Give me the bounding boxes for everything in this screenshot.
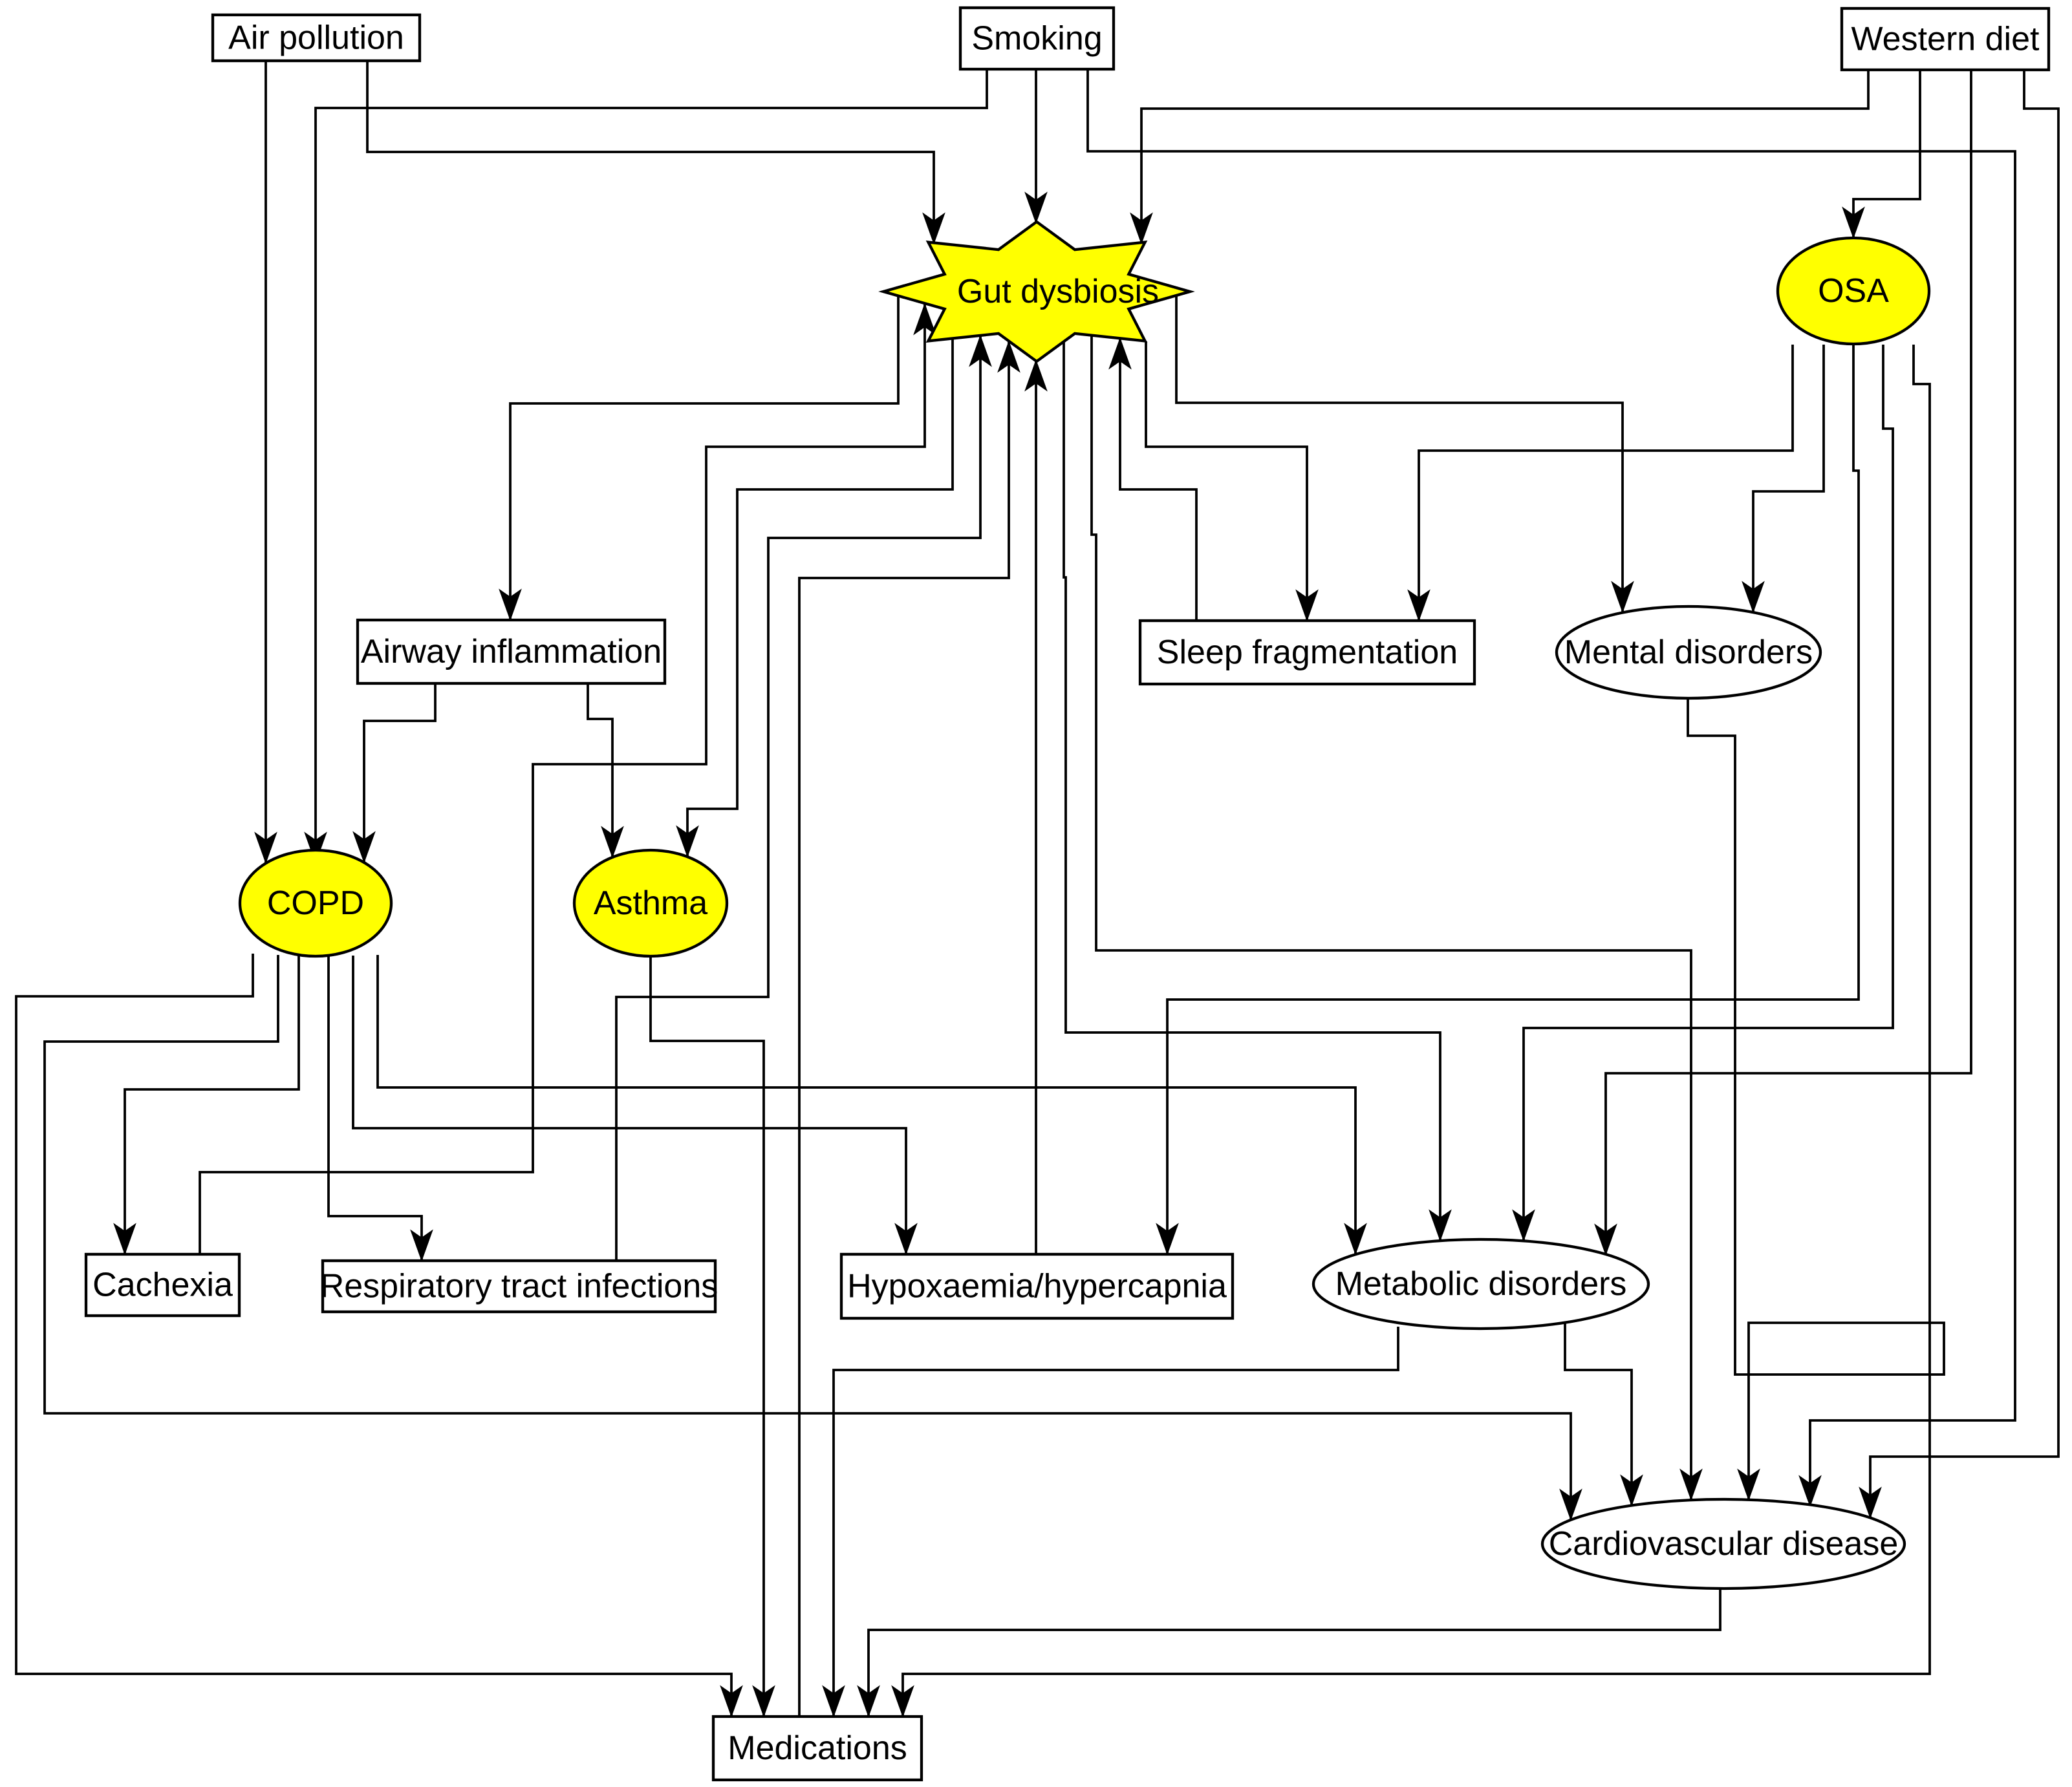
edge Cardiovascular disease to Medications [869,1589,1720,1717]
node Mental disorders (ellipse) [1557,606,1820,698]
edge Gut dysbiosis to Sleep fragmentation [1146,341,1307,621]
edge Air pollution to Gut dysbiosis [367,61,934,244]
svg-text:Airway inflammation: Airway inflammation [361,633,662,670]
node Medications (box) [713,1717,922,1780]
edge Respiratory tract infections to Gut dysbiosis [616,336,980,1261]
edge Sleep fragmentation to Gut dysbiosis [1120,338,1196,621]
node Gut dysbiosis (starburst) [883,222,1190,361]
svg-text:Air pollution: Air pollution [228,19,404,57]
node Western diet (box) [1842,8,2049,70]
edge COPD to Respiratory tract infections [329,956,422,1261]
edge Gut dysbiosis to Metabolic disorders [1064,341,1440,1241]
edge COPD to Hypoxaemia/hypercapnia [353,956,906,1254]
edge Western diet to Gut dysbiosis [1141,70,1868,244]
svg-text:Mental disorders: Mental disorders [1564,634,1813,671]
edge Metabolic disorders to Cardiovascular disease [1565,1323,1632,1506]
edge COPD to Cardiovascular disease [45,955,1571,1520]
node Respiratory tract infections (box) [320,1261,718,1312]
edge COPD to Metabolic disorders [378,955,1355,1254]
svg-text:Western diet: Western diet [1851,21,2040,58]
edge OSA to Medications [903,345,1930,1717]
edge Airway inflammation to Asthma [588,683,612,857]
node OSA (ellipse) [1778,238,1929,344]
edge OSA to Hypoxaemia/hypercapnia [1167,345,1859,1254]
svg-text:Metabolic disorders: Metabolic disorders [1335,1265,1627,1303]
svg-text:Cachexia: Cachexia [92,1267,233,1304]
edge Western diet to Metabolic disorders [1606,70,1971,1255]
node Cachexia (box) [86,1254,239,1316]
edge Mental disorders to Cardiovascular disease [1688,698,1944,1500]
svg-text:Asthma: Asthma [594,884,707,922]
edge Air pollution to COPD [264,61,267,863]
edge Smoking to Cardiovascular disease [1088,69,2015,1506]
svg-text:Cardiovascular disease: Cardiovascular disease [1549,1525,1899,1563]
svg-text:OSA: OSA [1818,272,1889,310]
edge OSA to Sleep fragmentation [1419,345,1793,621]
edge Smoking to Gut dysbiosis [1035,69,1037,223]
svg-text:Smoking: Smoking [971,20,1102,58]
node Smoking (box) [960,8,1114,69]
svg-text:Medications: Medications [728,1729,907,1767]
node Air pollution (box) [213,15,420,61]
edge Airway inflammation to COPD [364,683,435,862]
edge Western diet to Cardiovascular disease [1870,70,2058,1518]
node Airway inflammation (box) [358,620,665,683]
svg-text:Gut dysbiosis: Gut dysbiosis [957,273,1159,310]
edge COPD to Medications [16,954,731,1717]
edge Medications to Gut dysbiosis [799,341,1009,1717]
svg-text:Respiratory tract infections: Respiratory tract infections [320,1268,718,1305]
svg-text:COPD: COPD [267,884,364,922]
node Metabolic disorders (ellipse) [1313,1239,1648,1329]
svg-text:Sleep fragmentation: Sleep fragmentation [1157,634,1458,671]
edge Hypoxaemia/hypercapnia to Gut dysbiosis [1035,360,1037,1254]
edge OSA to Metabolic disorders [1524,345,1893,1241]
edge Metabolic disorders to Medications [834,1327,1398,1717]
node Hypoxaemia/hypercapnia (box) [841,1254,1233,1318]
edge Western diet to OSA [1853,70,1920,238]
svg-text:Hypoxaemia/hypercapnia: Hypoxaemia/hypercapnia [847,1268,1227,1305]
node Asthma (ellipse) [574,850,727,956]
edge OSA to Mental disorders [1753,345,1824,612]
edge Cachexia to Gut dysbiosis [200,304,925,1254]
edge Gut dysbiosis to Cardiovascular disease [1092,336,1691,1500]
edge Gut dysbiosis to Airway inflammation [510,296,898,620]
node Cardiovascular disease (ellipse) [1542,1499,1905,1589]
edge Gut dysbiosis to Asthma [687,338,953,857]
edge Smoking to COPD [316,69,987,863]
node COPD (ellipse) [240,850,391,956]
edge Gut dysbiosis to Mental disorders [1176,295,1623,612]
edge Asthma to Medications [651,956,764,1717]
node Sleep fragmentation (box) [1140,621,1474,684]
edge COPD to Cachexia [125,956,299,1254]
